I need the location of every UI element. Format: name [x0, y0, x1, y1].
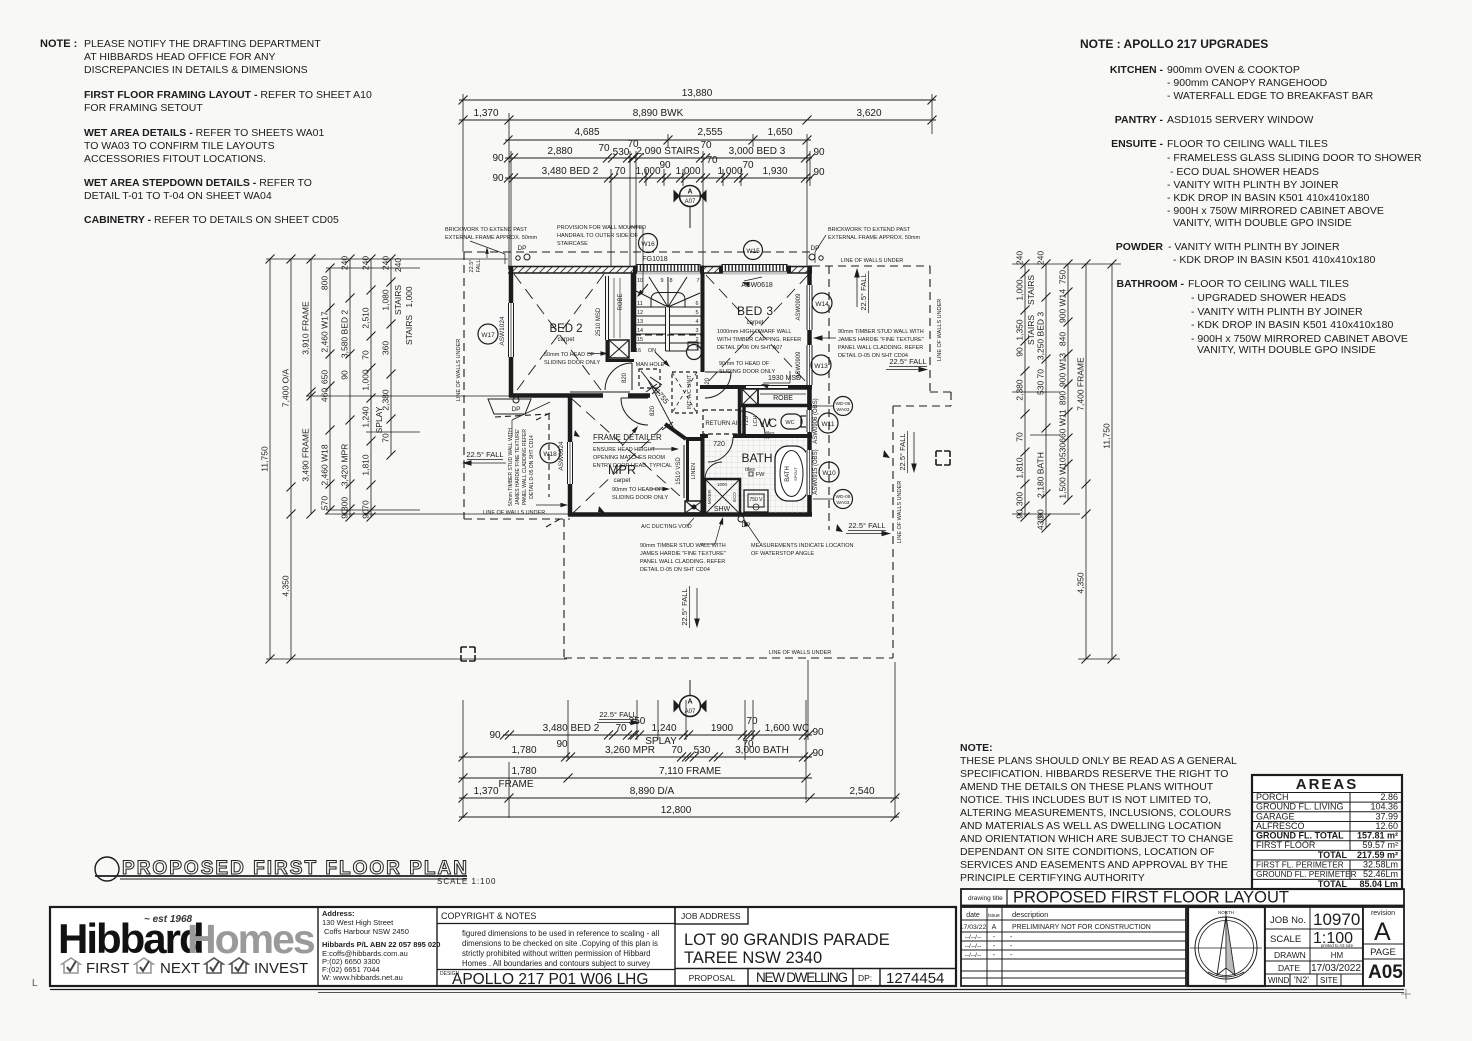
svg-text:AND ORIENTATION WHICH ARE SUBJ: AND ORIENTATION WHICH ARE SUBJECT TO CHA…	[960, 833, 1233, 845]
svg-text:APOLLO 217 P01 W06 LHG: APOLLO 217 P01 W06 LHG	[452, 971, 648, 988]
MPR walls	[568, 397, 573, 442]
svg-text:Coffs Harbour NSW 2450: Coffs Harbour NSW 2450	[324, 927, 409, 936]
WC door arc	[741, 411, 765, 435]
svg-text:SCALE: SCALE	[1270, 934, 1301, 945]
svg-text:WIND: WIND	[1268, 976, 1290, 985]
svg-text:PROPOSAL: PROPOSAL	[689, 973, 736, 983]
bottom shadow lines	[50, 989, 1404, 991]
svg-text:90: 90	[813, 167, 825, 178]
svg-text:660 W11: 660 W11	[1058, 409, 1068, 443]
svg-text:104.36: 104.36	[1370, 802, 1398, 812]
svg-text:2,380: 2,380	[381, 389, 391, 411]
svg-text:2,540: 2,540	[849, 786, 874, 797]
top dim row 90 / 2,880 / 70 530 70 / 2,090 STAIRS / 70 / 3,000 BED 3 / 90	[505, 157, 812, 159]
top dim row 1,370 / 8,890 BWK / 3,620	[459, 119, 936, 121]
svg-text:DETAIL D-06 ON SHT A07: DETAIL D-06 ON SHT A07	[717, 345, 782, 351]
svg-text:2: 2	[695, 337, 698, 343]
svg-text:PANEL WALL CLADDING REFER: PANEL WALL CLADDING REFER	[522, 429, 528, 505]
svg-text:5: 5	[695, 310, 698, 316]
svg-text:CABINETRY - REFER TO DETAILS O: CABINETRY - REFER TO DETAILS ON SHEET CD…	[84, 214, 339, 226]
svg-text:W10: W10	[822, 470, 836, 477]
svg-text:10970: 10970	[1313, 910, 1360, 929]
svg-text:6: 6	[695, 301, 698, 307]
svg-text:4,685: 4,685	[574, 127, 599, 138]
svg-text:4,350: 4,350	[281, 575, 291, 597]
WC pan	[781, 414, 802, 429]
svg-text:LINE OF WALLS UNDER: LINE OF WALLS UNDER	[483, 510, 545, 516]
svg-text:WITH TIMBER CAPPING. REFER: WITH TIMBER CAPPING. REFER	[717, 337, 801, 343]
svg-text:BED 3: BED 3	[737, 304, 773, 318]
svg-text:70: 70	[700, 140, 712, 151]
svg-text:3,480 BED 2: 3,480 BED 2	[542, 166, 599, 177]
bottom dim row 12,800	[459, 816, 899, 818]
sliding door track	[570, 391, 630, 393]
svg-text:240: 240	[1015, 251, 1025, 265]
svg-text:JAMES HARDIE 'FINE TEXTURE': JAMES HARDIE 'FINE TEXTURE'	[515, 429, 521, 505]
svg-text:8: 8	[669, 278, 672, 284]
svg-text:17/03/2022: 17/03/2022	[1311, 963, 1361, 974]
svg-text:A: A	[992, 924, 997, 931]
svg-text:date: date	[966, 912, 980, 919]
svg-text:W18: W18	[543, 451, 557, 458]
svg-text:16: 16	[635, 348, 641, 354]
svg-text:570: 570	[320, 496, 330, 510]
window circle W18	[540, 443, 560, 463]
svg-text:WET AREA DETAILS - REFER TO SH: WET AREA DETAILS - REFER TO SHEETS WA01	[84, 127, 325, 139]
svg-text:STAIRCASE: STAIRCASE	[557, 241, 588, 247]
svg-text:LINE OF WALLS UNDER: LINE OF WALLS UNDER	[769, 650, 831, 656]
svg-text:Hibbards P/L ABN 22 057 895 02: Hibbards P/L ABN 22 057 895 020	[322, 940, 440, 949]
svg-text:L: L	[32, 978, 38, 989]
svg-text:DRAWN: DRAWN	[1274, 950, 1306, 960]
svg-text:1510 VSD: 1510 VSD	[676, 457, 682, 485]
svg-text:820: 820	[622, 372, 628, 383]
svg-text:STAIRS: STAIRS	[1026, 275, 1036, 305]
svg-text:~ est 1968: ~ est 1968	[144, 914, 193, 925]
svg-text:70: 70	[671, 745, 683, 756]
door circles WD-05 WA03	[834, 490, 853, 509]
svg-text:issue: issue	[988, 913, 1000, 919]
svg-text:90mm TIMBER STUD WALL WITH: 90mm TIMBER STUD WALL WITH	[838, 329, 924, 335]
svg-text:50mm TO HEAD OF: 50mm TO HEAD OF	[544, 352, 595, 358]
svg-text:PAGE: PAGE	[1370, 947, 1396, 958]
BED 3 door	[705, 372, 731, 398]
dashed line of walls under (ground floor outline)	[463, 252, 465, 519]
svg-text:dimensions to be checked on si: dimensions to be checked on site .Copyin…	[462, 939, 658, 948]
svg-text:22.5°: 22.5°	[469, 260, 475, 273]
svg-text:GARAGE: GARAGE	[1256, 811, 1295, 821]
svg-text:INT. A/C UNIT: INT. A/C UNIT	[687, 374, 693, 409]
svg-text:DISCREPANCIES IN DETAILS & DIM: DISCREPANCIES IN DETAILS & DIMENSIONS	[84, 64, 308, 76]
svg-text:FIRST FLOOR: FIRST FLOOR	[1256, 840, 1316, 850]
svg-text:- VANITY WITH PLINTH BY JOINER: - VANITY WITH PLINTH BY JOINER	[1191, 306, 1363, 318]
window circle W17	[478, 324, 498, 344]
svg-text:SCALE 1:100: SCALE 1:100	[437, 877, 496, 886]
window ASW0909 lower	[806, 345, 813, 385]
svg-text:ON: ON	[648, 348, 656, 354]
svg-text:90: 90	[812, 727, 824, 738]
svg-text:FRAME: FRAME	[499, 779, 534, 790]
corner bracket symbol right	[936, 451, 950, 465]
window circle W15	[744, 241, 763, 260]
top dim row 90 / 3,480 BED 2 / 70 / 1,000 / 90 / 1,000 / 70 / 1,000 / 70 / 1,930 / 90	[505, 177, 812, 179]
svg-text:22.5° FALL: 22.5° FALL	[599, 710, 636, 719]
svg-text:NOTICE. THIS INCLUDES BUT IS N: NOTICE. THIS INCLUDES BUT IS NOT LIMITED…	[960, 794, 1211, 806]
svg-text:BRICKWORK TO EXTEND PAST: BRICKWORK TO EXTEND PAST	[445, 227, 528, 233]
svg-text:1,650: 1,650	[767, 127, 792, 138]
svg-text:FALL: FALL	[476, 260, 482, 273]
svg-text:NOTE:: NOTE:	[960, 742, 993, 754]
svg-text:1,810: 1,810	[361, 454, 371, 476]
svg-text:SERVICES AND EASEMENTS AND APP: SERVICES AND EASEMENTS AND APPROVAL BY T…	[960, 859, 1228, 871]
svg-text:TOTAL: TOTAL	[1318, 879, 1348, 889]
svg-text:ROBE: ROBE	[618, 293, 624, 310]
svg-text:70: 70	[1015, 432, 1025, 442]
svg-text:90: 90	[489, 730, 501, 741]
job data cells	[1265, 907, 1363, 986]
svg-text:1,810: 1,810	[1015, 457, 1025, 479]
svg-text:70: 70	[361, 500, 371, 510]
svg-text:W11: W11	[822, 421, 835, 428]
svg-text:AMEND THE DETAILS ON THESE PLA: AMEND THE DETAILS ON THESE PLANS WITHOUT	[960, 781, 1214, 793]
bath room tiles	[705, 438, 807, 513]
svg-text:11,750: 11,750	[1102, 423, 1112, 449]
svg-text:EXTERNAL FRAME APPROX. 50mm: EXTERNAL FRAME APPROX. 50mm	[828, 235, 921, 241]
svg-text:7,400 FRAME: 7,400 FRAME	[1076, 357, 1086, 411]
svg-text:NEXT: NEXT	[160, 960, 200, 977]
svg-text:13: 13	[637, 319, 643, 325]
drawing title bar	[961, 889, 1404, 906]
svg-text:2,555: 2,555	[697, 127, 722, 138]
svg-text:WD-05: WD-05	[836, 494, 851, 500]
svg-text:2,460 W18: 2,460 W18	[320, 444, 330, 485]
svg-text:52.46Lm: 52.46Lm	[1363, 869, 1398, 879]
MPR room	[572, 399, 700, 514]
svg-text:W15: W15	[746, 248, 760, 255]
svg-text:300: 300	[1015, 492, 1025, 506]
corner bracket symbol left	[461, 647, 475, 661]
vertical dim column R2	[1045, 264, 1047, 528]
svg-text:INVEST: INVEST	[254, 960, 308, 977]
svg-text:carpet: carpet	[558, 337, 575, 343]
svg-text:1,000: 1,000	[404, 286, 414, 308]
svg-text:DP:: DP:	[858, 973, 872, 983]
a/c ducting void box	[685, 501, 703, 513]
svg-text:530 70: 530 70	[1036, 369, 1046, 395]
vertical dim column R4	[1085, 264, 1087, 659]
wall above bath	[700, 434, 708, 438]
svg-text:FW: FW	[756, 472, 765, 478]
svg-text:3,580 BED 2: 3,580 BED 2	[340, 310, 350, 358]
vertical dim column L4	[329, 268, 331, 510]
svg-text:DATE: DATE	[1278, 963, 1300, 973]
svg-text:217.59 m²: 217.59 m²	[1357, 850, 1398, 860]
small black triangles	[883, 450, 890, 458]
top exterior brick wall	[508, 266, 637, 273]
svg-text:FIRST FLOOR FRAMING LAYOUT - R: FIRST FLOOR FRAMING LAYOUT - REFER TO SH…	[84, 89, 372, 101]
svg-text:3,000 BED 3: 3,000 BED 3	[729, 146, 786, 157]
svg-text:KITCHEN -: KITCHEN -	[1110, 64, 1164, 76]
svg-text:650: 650	[320, 370, 330, 384]
svg-text:ASW0909: ASW0909	[796, 351, 802, 379]
svg-text:NOTE :: NOTE :	[40, 38, 77, 50]
svg-text:PLEASE NOTIFY THE DRAFTING DEP: PLEASE NOTIFY THE DRAFTING DEPARTMENT	[84, 38, 321, 50]
svg-text:BATHROOM -: BATHROOM -	[1117, 278, 1185, 290]
svg-text:3,250 BED 3: 3,250 BED 3	[1036, 312, 1046, 360]
vertical dim column R5	[1111, 264, 1113, 659]
svg-text:90: 90	[340, 509, 350, 519]
svg-text:LOT 90 GRANDIS PARADE: LOT 90 GRANDIS PARADE	[684, 931, 890, 949]
svg-text:COPYRIGHT & NOTES: COPYRIGHT & NOTES	[441, 911, 536, 921]
svg-text:SPOUT: SPOUT	[793, 467, 798, 481]
robe boxes right	[742, 389, 758, 405]
stair newel	[687, 345, 702, 360]
vanity 750V	[744, 490, 768, 512]
svg-text:820: 820	[650, 405, 656, 416]
svg-text:240: 240	[381, 256, 391, 270]
svg-text:SLIDING DOOR ONLY: SLIDING DOOR ONLY	[544, 360, 600, 366]
dashed roof step near MPR	[495, 414, 549, 417]
BED 2 room	[514, 274, 604, 394]
svg-text:1900: 1900	[711, 723, 734, 734]
svg-text:1000mm HIGH DWARF WALL: 1000mm HIGH DWARF WALL	[717, 329, 791, 335]
linen cupboard	[686, 439, 689, 501]
svg-text:MIXER: MIXER	[707, 489, 712, 504]
svg-text:430: 430	[1036, 516, 1046, 530]
svg-text:strictly prohibited without w: strictly prohibited without written perm…	[462, 949, 651, 958]
svg-text:90: 90	[556, 739, 568, 750]
svg-text:2,090 STAIRS: 2,090 STAIRS	[636, 146, 700, 157]
window ASW0924 left wall MPR	[567, 442, 574, 484]
svg-text:JAMES HARDIE "FINE TEXTURE": JAMES HARDIE "FINE TEXTURE"	[640, 551, 726, 557]
revision table	[961, 907, 1186, 986]
svg-text:- UPGRADED SHOWER HEADS: - UPGRADED SHOWER HEADS	[1191, 292, 1346, 304]
top dim row 13,880	[459, 99, 936, 101]
robe sliding door 2510 MSD	[605, 276, 607, 340]
svg-text:- VANITY WITH PLINTH BY JOINER: - VANITY WITH PLINTH BY JOINER	[1167, 179, 1339, 191]
svg-text:7,400 O/A: 7,400 O/A	[281, 369, 291, 408]
BED 2 bottom wall	[509, 393, 603, 398]
svg-text:ACCESSORIES FITOUT LOCATIONS.: ACCESSORIES FITOUT LOCATIONS.	[84, 153, 266, 165]
svg-text:PROPOSED FIRST FLOOR LAYOUT: PROPOSED FIRST FLOOR LAYOUT	[1013, 889, 1289, 907]
svg-text:W: www.hibbards.net.au: W: www.hibbards.net.au	[322, 973, 403, 982]
svg-text:PROVISION FOR WALL MOUNTED: PROVISION FOR WALL MOUNTED	[557, 225, 646, 231]
vertical dim column L3	[310, 259, 312, 514]
MPR bottom wall	[568, 512, 812, 517]
svg-text:3,910 FRAME: 3,910 FRAME	[301, 301, 311, 355]
svg-text:FG1018: FG1018	[642, 256, 667, 263]
svg-text:70: 70	[598, 143, 610, 154]
svg-text:240: 240	[361, 256, 371, 270]
vertical dim column L1	[269, 259, 271, 659]
svg-text:900mm OVEN & COOKTOP: 900mm OVEN & COOKTOP	[1167, 64, 1300, 76]
svg-text:90: 90	[812, 748, 824, 759]
top dim row 4,685 / 2,555 / 1,650	[505, 139, 811, 141]
svg-text:JAMES HARDIE "FINE TEXTURE": JAMES HARDIE "FINE TEXTURE"	[838, 337, 924, 343]
svg-text:90: 90	[492, 173, 504, 184]
svg-text:3,490 FRAME: 3,490 FRAME	[301, 428, 311, 482]
svg-text:GROUND FL. PERIMETER: GROUND FL. PERIMETER	[1256, 870, 1357, 879]
svg-text:LINE OF WALLS UNDER: LINE OF WALLS UNDER	[897, 481, 903, 543]
svg-text:LINEN: LINEN	[691, 463, 697, 479]
robe linen lines	[613, 278, 615, 338]
svg-text:13,880: 13,880	[682, 88, 713, 99]
svg-text:W13: W13	[814, 363, 828, 370]
svg-text:1,370: 1,370	[473, 108, 498, 119]
svg-text:90: 90	[1015, 347, 1025, 357]
svg-text:1: 1	[695, 346, 698, 352]
svg-text:1,240: 1,240	[651, 723, 676, 734]
svg-text:3,260 MPR: 3,260 MPR	[605, 745, 655, 756]
svg-text:1,240: 1,240	[361, 406, 371, 428]
stair up arrow	[638, 284, 648, 296]
svg-text:Homes . All boundaries and con: Homes . All boundaries and contours subj…	[462, 959, 650, 968]
svg-text:2,180 BATH: 2,180 BATH	[1036, 452, 1046, 498]
svg-text:carpet: carpet	[614, 478, 631, 484]
svg-text:- ECO DUAL SHOWER HEADS: - ECO DUAL SHOWER HEADS	[1170, 166, 1319, 178]
section marker A-A07 bottom	[674, 680, 707, 717]
svg-text:AND MATERIALS AS WELL AS DWELL: AND MATERIALS AS WELL AS DWELLING LOCATI…	[960, 820, 1221, 832]
svg-text:4,350: 4,350	[1076, 572, 1086, 594]
svg-text:8,890 BWK: 8,890 BWK	[633, 108, 684, 119]
svg-text:12: 12	[637, 310, 643, 316]
svg-text:PANTRY -: PANTRY -	[1115, 114, 1164, 126]
svg-text:A/C DUCTING VOID: A/C DUCTING VOID	[641, 524, 692, 530]
svg-text:10: 10	[637, 278, 643, 284]
svg-text:TOTAL: TOTAL	[1318, 850, 1348, 860]
svg-text:70: 70	[361, 350, 371, 360]
1755 diagonal dim	[648, 380, 676, 433]
svg-text:TAREE NSW 2340: TAREE NSW 2340	[684, 949, 822, 967]
svg-text:1,000: 1,000	[361, 369, 371, 391]
svg-text:PRELIMINARY NOT FOR CONSTRUCTI: PRELIMINARY NOT FOR CONSTRUCTION	[1012, 924, 1151, 931]
logo tagline houses	[62, 958, 80, 973]
svg-text:PORCH: PORCH	[1256, 792, 1289, 802]
svg-text:2.86: 2.86	[1380, 792, 1398, 802]
svg-text:JOB ADDRESS: JOB ADDRESS	[681, 911, 741, 921]
svg-text:DETAIL D-05 ON SHT CD14: DETAIL D-05 ON SHT CD14	[529, 435, 535, 499]
svg-text:FLOOR TO CEILING WALL TILES: FLOOR TO CEILING WALL TILES	[1167, 138, 1328, 150]
svg-text:800: 800	[320, 276, 330, 290]
svg-text:ALFRESCO: ALFRESCO	[1256, 821, 1305, 831]
svg-text:- WATERFALL EDGE TO BREAKFAST: - WATERFALL EDGE TO BREAKFAST BAR	[1167, 90, 1374, 102]
svg-text:1000: 1000	[717, 482, 728, 487]
BED 3 room	[706, 275, 808, 384]
svg-text:FLOOR TO CEILING WALL TILES: FLOOR TO CEILING WALL TILES	[1188, 278, 1349, 290]
svg-text:9: 9	[660, 278, 663, 284]
return air dashed box	[703, 410, 744, 434]
shower door arc	[705, 462, 722, 479]
svg-text:THESE PLANS SHOULD ONLY BE REA: THESE PLANS SHOULD ONLY BE READ AS A GEN…	[960, 755, 1237, 767]
svg-text:240: 240	[340, 256, 350, 270]
svg-text:37.99: 37.99	[1375, 811, 1398, 821]
window circles right	[812, 293, 832, 313]
vertical dim column R3	[1067, 264, 1069, 500]
svg-text:A07: A07	[685, 199, 696, 205]
svg-text:PRINCIPLE CERTIFYING AUTHORITY: PRINCIPLE CERTIFYING AUTHORITY	[960, 872, 1145, 884]
svg-text:3: 3	[695, 328, 698, 334]
svg-text:750 V: 750 V	[749, 497, 763, 503]
svg-text:A05: A05	[1368, 962, 1403, 983]
bottom dim row 1,780 / 90 / 3,260 MPR / 70 / 530 / 3,000 BATH / 90	[459, 756, 812, 758]
svg-text:DETAIL D-05 ON SHT CD04: DETAIL D-05 ON SHT CD04	[640, 567, 710, 573]
svg-text:DP: DP	[810, 245, 819, 252]
dimension extension lines top	[462, 94, 464, 252]
svg-text:TO WA03 TO CONFIRM TILE LAYOUT: TO WA03 TO CONFIRM TILE LAYOUTS	[84, 140, 275, 152]
svg-text:- KDK DROP IN BASIN K501 410x4: - KDK DROP IN BASIN K501 410x410x180	[1167, 192, 1369, 204]
svg-text:HM: HM	[1331, 951, 1344, 960]
svg-text:90mm TO HEAD OF: 90mm TO HEAD OF	[612, 487, 663, 493]
svg-text:900 W13: 900 W13	[1058, 353, 1068, 387]
svg-text:POWDER: POWDER	[1116, 241, 1164, 253]
left exterior wall	[509, 266, 514, 303]
window ASW0906 OBS	[806, 410, 813, 432]
svg-text:W17: W17	[481, 332, 495, 339]
svg-text:130 West High Street: 130 West High Street	[322, 918, 394, 927]
bed3 bottom wall with msd	[700, 385, 746, 389]
right dim extension horizontals	[1012, 263, 1121, 265]
window FG1018 in top wall	[637, 265, 700, 272]
svg-text:JOB No.: JOB No.	[1270, 915, 1306, 926]
svg-text:59.57 m²: 59.57 m²	[1362, 840, 1398, 850]
shower	[705, 479, 740, 514]
svg-text:3,480 BED 2: 3,480 BED 2	[543, 723, 600, 734]
svg-text:--/--/--: --/--/--	[965, 934, 982, 941]
svg-text:DETAIL T-01 TO T-04 ON SHEET W: DETAIL T-01 TO T-04 ON SHEET WA04	[84, 190, 272, 202]
svg-text:STAIRS: STAIRS	[404, 315, 414, 345]
svg-text:GROUND FL. LIVING: GROUND FL. LIVING	[1256, 802, 1344, 812]
job address cell	[675, 907, 748, 924]
svg-text:7,110 FRAME: 7,110 FRAME	[659, 766, 721, 777]
svg-text:70: 70	[614, 166, 626, 177]
door circles WD-06 WA03	[834, 397, 853, 416]
svg-text:BRICKWORK TO EXTEND PAST: BRICKWORK TO EXTEND PAST	[828, 227, 911, 233]
svg-text:1,600 WC: 1,600 WC	[765, 723, 809, 734]
svg-text:70: 70	[706, 155, 718, 166]
svg-text:printed to A3 size: printed to A3 size	[1321, 943, 1354, 948]
svg-text:FRAME DETAILER: FRAME DETAILER	[593, 433, 662, 442]
svg-text:3,620: 3,620	[856, 108, 881, 119]
svg-text:LINE OF WALLS UNDER: LINE OF WALLS UNDER	[841, 258, 903, 264]
svg-text:W14: W14	[815, 301, 829, 308]
robe walls	[631, 273, 635, 352]
svg-text:240: 240	[393, 258, 403, 272]
robe shelf box	[609, 340, 629, 358]
svg-text:NEW DWELLING: NEW DWELLING	[756, 970, 848, 985]
svg-text:22.5° FALL: 22.5° FALL	[680, 588, 689, 625]
svg-text:A: A	[1374, 918, 1391, 946]
svg-text:DETAIL D-05 ON SHT CD04: DETAIL D-05 ON SHT CD04	[838, 353, 908, 359]
svg-text:WD-06: WD-06	[836, 401, 851, 407]
svg-text:VANITY, WITH DOUBLE GPO INSIDE: VANITY, WITH DOUBLE GPO INSIDE	[1197, 344, 1376, 356]
svg-text:2,460 W17: 2,460 W17	[320, 311, 330, 352]
svg-text:WET AREA STEPDOWN DETAILS - R: WET AREA STEPDOWN DETAILS - REFER TO	[84, 177, 312, 189]
svg-text:22.5° FALL: 22.5° FALL	[859, 273, 868, 310]
svg-text:ASW0909: ASW0909	[796, 293, 802, 321]
svg-text:WA03: WA03	[837, 500, 850, 506]
svg-text:32.58Lm: 32.58Lm	[1363, 860, 1398, 870]
svg-text:Homes: Homes	[187, 916, 315, 962]
hall door arcs	[605, 363, 632, 390]
svg-text:STAIRS: STAIRS	[1026, 315, 1036, 345]
svg-text:1,780: 1,780	[511, 745, 536, 756]
splay wall	[665, 424, 686, 439]
svg-text:ROBE: ROBE	[773, 395, 793, 402]
window ASW0915 OBS	[806, 450, 813, 495]
svg-text:FOR FRAMING SETOUT: FOR FRAMING SETOUT	[84, 102, 203, 114]
svg-text:157.81 m²: 157.81 m²	[1357, 831, 1398, 841]
svg-text:50mm TIMBER STUD WALL WITH: 50mm TIMBER STUD WALL WITH	[508, 428, 514, 506]
